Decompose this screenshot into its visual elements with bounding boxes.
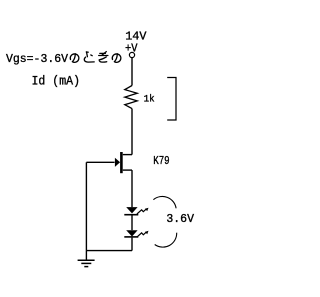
svg-text:14V: 14V (125, 30, 147, 44)
svg-text:3.6V: 3.6V (166, 212, 194, 226)
svg-text:1k: 1k (144, 94, 155, 106)
svg-text:Vgs=-3.6V: Vgs=-3.6V (6, 52, 69, 66)
svg-text:Id (mA): Id (mA) (32, 74, 81, 89)
svg-text:K79: K79 (153, 154, 170, 168)
